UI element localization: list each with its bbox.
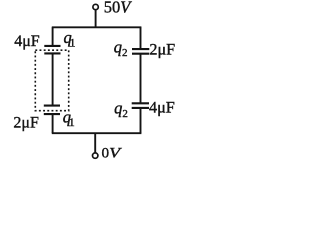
svg-text:2μF: 2μF: [149, 40, 175, 58]
capacitor 2μF top plate: [44, 105, 60, 107]
wire: bottom rail to 0V terminal: [94, 133, 96, 152]
wire: right branch upper segment: [140, 27, 142, 48]
svg-text:50V: 50V: [104, 0, 133, 17]
svg-text:q2: q2: [114, 98, 128, 119]
wire: left branch lower segment: [52, 115, 54, 133]
wire: left branch middle segment: [52, 54, 54, 105]
capacitor 2μF right top plate: [132, 48, 149, 50]
wire: 50V terminal to top rail: [95, 10, 97, 27]
svg-text:q1: q1: [64, 28, 76, 49]
capacitor 4μF bottom plate: [44, 52, 60, 54]
svg-text:4μF: 4μF: [14, 33, 40, 50]
terminal 50V (open circle): [93, 4, 98, 9]
wire: right branch middle segment: [140, 55, 142, 103]
svg-text:4μF: 4μF: [149, 99, 175, 117]
wire: top rail: [52, 26, 142, 28]
svg-text:q2: q2: [114, 38, 128, 59]
capacitor 4μF right top plate: [132, 102, 149, 104]
wire: right branch lower segment: [140, 109, 142, 134]
capacitor 4μF right bottom plate: [132, 107, 149, 109]
capacitor 2μF bottom plate: [44, 113, 60, 115]
svg-text:q1: q1: [63, 108, 75, 129]
svg-text:0V: 0V: [102, 145, 123, 162]
dashed box around isolated plates: [35, 50, 68, 110]
capacitor 4μF top plate: [44, 45, 60, 47]
wire: left branch upper segment: [52, 27, 54, 45]
capacitor 2μF right bottom plate: [132, 53, 149, 55]
svg-text:2μF: 2μF: [13, 114, 39, 131]
terminal 0V (open circle): [93, 153, 98, 158]
wire: bottom rail: [52, 132, 142, 134]
